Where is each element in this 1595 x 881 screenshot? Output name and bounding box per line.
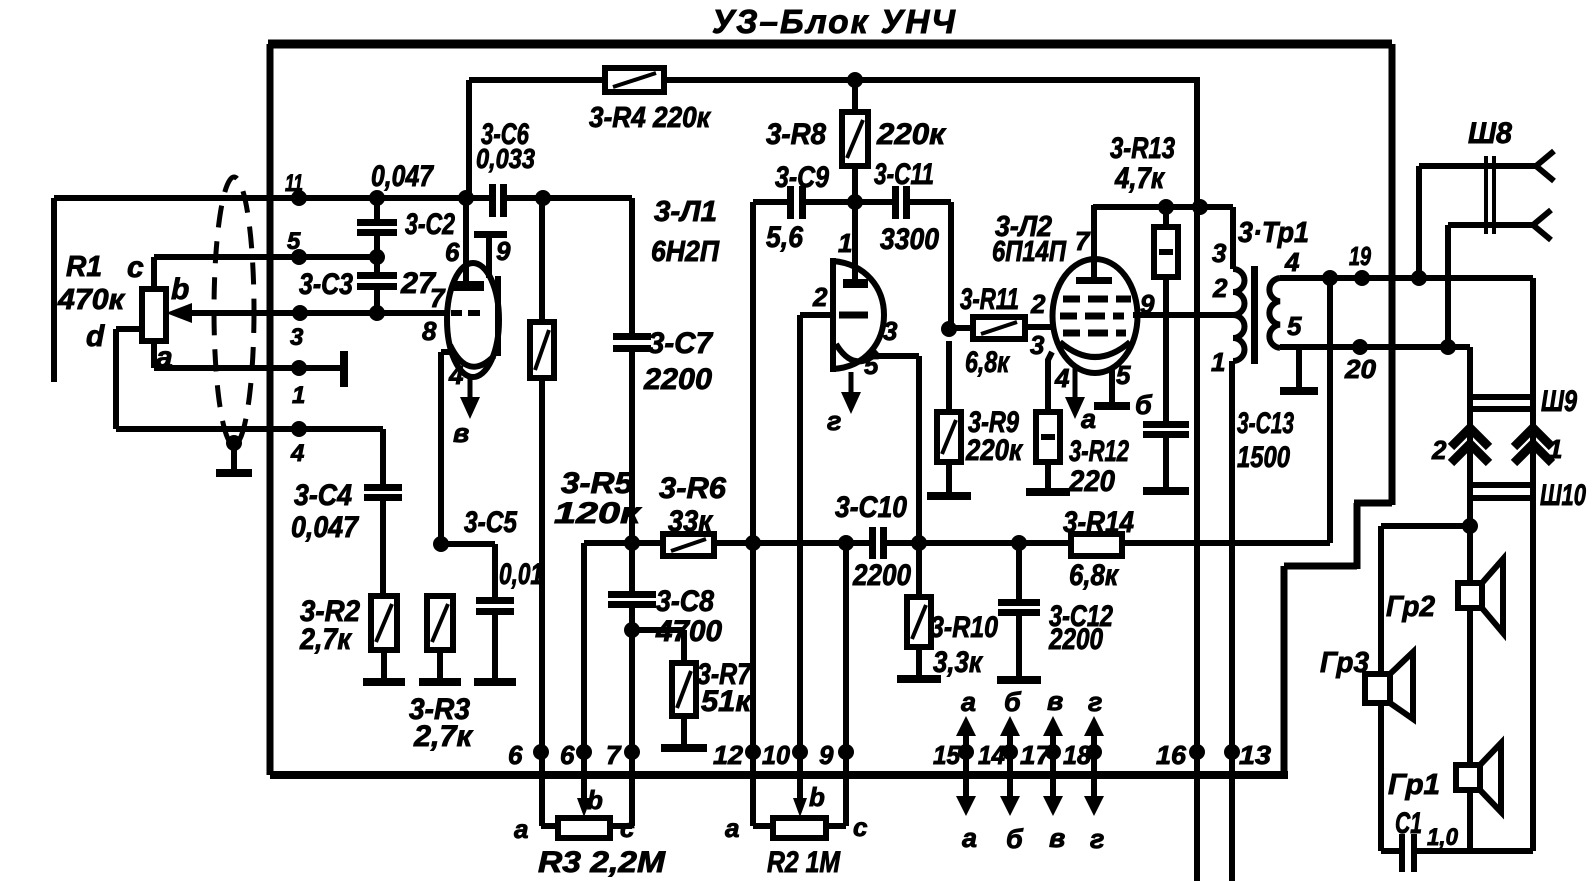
svg-text:3-С4: 3-С4 — [294, 479, 352, 512]
svg-text:2,7к: 2,7к — [299, 623, 352, 656]
svg-text:3: 3 — [1030, 330, 1045, 360]
svg-text:2: 2 — [1212, 273, 1228, 303]
svg-text:20: 20 — [1344, 354, 1377, 384]
svg-text:10: 10 — [762, 740, 791, 770]
svg-text:3-R13: 3-R13 — [1110, 132, 1175, 165]
svg-text:5: 5 — [1287, 311, 1302, 341]
svg-text:6,8к: 6,8к — [965, 346, 1010, 379]
svg-text:3-Л1: 3-Л1 — [654, 196, 717, 228]
svg-text:5: 5 — [864, 350, 879, 380]
svg-text:0,033: 0,033 — [476, 143, 535, 174]
svg-text:Гр2: Гр2 — [1386, 591, 1435, 623]
svg-text:С1: С1 — [1395, 807, 1422, 840]
svg-text:3300: 3300 — [880, 223, 939, 256]
svg-text:15: 15 — [933, 740, 961, 770]
svg-text:1: 1 — [1211, 347, 1225, 377]
svg-text:3-R6: 3-R6 — [659, 472, 726, 505]
svg-text:6: 6 — [445, 237, 460, 267]
svg-text:220: 220 — [1068, 465, 1115, 498]
svg-text:9: 9 — [1140, 289, 1155, 319]
svg-text:3-С11: 3-С11 — [874, 158, 934, 191]
svg-text:а: а — [962, 823, 977, 853]
svg-text:3-R4 220к: 3-R4 220к — [589, 102, 711, 134]
svg-text:4,7к: 4,7к — [1114, 162, 1165, 195]
svg-text:18: 18 — [1063, 740, 1092, 770]
svg-text:УЗ–Блок УНЧ: УЗ–Блок УНЧ — [712, 3, 957, 40]
svg-text:17: 17 — [1020, 740, 1053, 770]
svg-text:2200: 2200 — [643, 363, 712, 396]
svg-text:R2 1М: R2 1М — [767, 846, 841, 879]
svg-text:3-R8: 3-R8 — [766, 118, 826, 151]
svg-text:13: 13 — [1239, 740, 1272, 770]
svg-text:7: 7 — [1075, 226, 1091, 256]
svg-text:3-R14: 3-R14 — [1063, 506, 1134, 539]
svg-text:3-R12: 3-R12 — [1069, 435, 1129, 468]
svg-text:6П14П: 6П14П — [992, 236, 1067, 268]
svg-text:а: а — [725, 813, 739, 843]
svg-text:Гр1: Гр1 — [1388, 769, 1440, 801]
svg-text:6Н2П: 6Н2П — [651, 236, 720, 268]
svg-text:а: а — [1081, 404, 1096, 434]
svg-text:51к: 51к — [701, 685, 753, 718]
svg-text:3-С8: 3-С8 — [656, 585, 714, 618]
svg-text:4700: 4700 — [655, 615, 722, 648]
svg-text:3-С3: 3-С3 — [299, 268, 353, 301]
svg-text:3: 3 — [290, 324, 304, 351]
svg-text:2200: 2200 — [1048, 623, 1103, 656]
svg-text:3-С7: 3-С7 — [648, 327, 713, 360]
svg-text:19: 19 — [1349, 241, 1371, 271]
svg-text:0,01: 0,01 — [499, 558, 543, 591]
svg-text:а: а — [156, 341, 173, 374]
svg-text:3-R11: 3-R11 — [960, 283, 1019, 316]
svg-text:1: 1 — [1548, 434, 1562, 464]
svg-text:в: в — [1047, 686, 1063, 716]
svg-text:5: 5 — [287, 228, 301, 255]
svg-text:4: 4 — [1284, 247, 1300, 277]
svg-text:8: 8 — [422, 316, 437, 346]
svg-text:7: 7 — [430, 283, 446, 313]
svg-text:Ш10: Ш10 — [1540, 479, 1586, 512]
svg-text:R1: R1 — [66, 251, 102, 283]
svg-text:а: а — [514, 814, 528, 844]
svg-text:в: в — [453, 418, 469, 448]
svg-text:4: 4 — [290, 440, 304, 467]
svg-text:2200: 2200 — [852, 559, 911, 592]
svg-text:b: b — [171, 273, 189, 306]
svg-text:6: 6 — [560, 740, 575, 770]
svg-text:в: в — [1049, 823, 1065, 853]
svg-text:9: 9 — [819, 740, 834, 770]
svg-text:11: 11 — [285, 170, 303, 197]
svg-text:33к: 33к — [668, 505, 714, 538]
svg-text:Ш9: Ш9 — [1541, 385, 1577, 418]
svg-text:b: b — [809, 782, 825, 812]
svg-text:3-R5: 3-R5 — [561, 467, 634, 500]
svg-text:3·Тр1: 3·Тр1 — [1238, 217, 1309, 249]
svg-text:5: 5 — [1116, 360, 1131, 390]
svg-text:7: 7 — [606, 740, 622, 770]
svg-text:1,0: 1,0 — [1427, 824, 1459, 851]
svg-text:б: б — [1006, 824, 1024, 854]
svg-text:г: г — [1088, 687, 1102, 717]
svg-text:с: с — [853, 812, 868, 842]
svg-text:2,7к: 2,7к — [413, 720, 474, 753]
svg-text:d: d — [86, 320, 105, 353]
svg-text:14: 14 — [978, 740, 1006, 770]
svg-text:3,3к: 3,3к — [933, 646, 984, 679]
svg-text:Ш8: Ш8 — [1468, 117, 1512, 150]
svg-text:4: 4 — [1054, 363, 1070, 393]
svg-text:12: 12 — [713, 740, 744, 770]
svg-text:9: 9 — [496, 236, 511, 266]
svg-text:4: 4 — [448, 360, 464, 390]
svg-text:1: 1 — [292, 382, 305, 409]
svg-text:3-R10: 3-R10 — [930, 611, 998, 644]
svg-text:0,047: 0,047 — [371, 160, 434, 193]
svg-text:470к: 470к — [57, 284, 125, 316]
svg-text:б: б — [1004, 687, 1022, 717]
svg-text:с: с — [127, 251, 144, 284]
svg-text:6: 6 — [508, 740, 523, 770]
svg-text:3: 3 — [1212, 238, 1227, 268]
svg-text:6,8к: 6,8к — [1069, 559, 1120, 592]
svg-text:б: б — [1135, 390, 1153, 420]
svg-text:R3 2,2М: R3 2,2М — [538, 846, 666, 879]
svg-text:220к: 220к — [876, 118, 947, 151]
svg-text:г: г — [827, 406, 841, 436]
svg-text:120к: 120к — [554, 497, 642, 530]
svg-text:3-С5: 3-С5 — [464, 506, 518, 539]
svg-text:а: а — [961, 687, 976, 717]
svg-text:16: 16 — [1156, 740, 1187, 770]
svg-text:г: г — [1090, 824, 1104, 854]
svg-text:с: с — [620, 813, 635, 843]
svg-text:220к: 220к — [965, 434, 1023, 467]
svg-text:5,6: 5,6 — [766, 221, 803, 254]
svg-text:3-С10: 3-С10 — [835, 491, 907, 524]
svg-text:1500: 1500 — [1237, 441, 1290, 474]
svg-text:2: 2 — [812, 282, 828, 312]
svg-text:2: 2 — [1431, 435, 1447, 465]
svg-text:3-С13: 3-С13 — [1237, 407, 1294, 440]
svg-text:Гр3: Гр3 — [1320, 647, 1369, 679]
svg-text:2: 2 — [1030, 289, 1046, 319]
svg-text:b: b — [587, 785, 603, 815]
svg-text:0,047: 0,047 — [291, 511, 359, 544]
svg-text:1: 1 — [838, 228, 852, 258]
svg-text:3: 3 — [883, 316, 898, 346]
svg-text:3-С9: 3-С9 — [775, 161, 829, 194]
